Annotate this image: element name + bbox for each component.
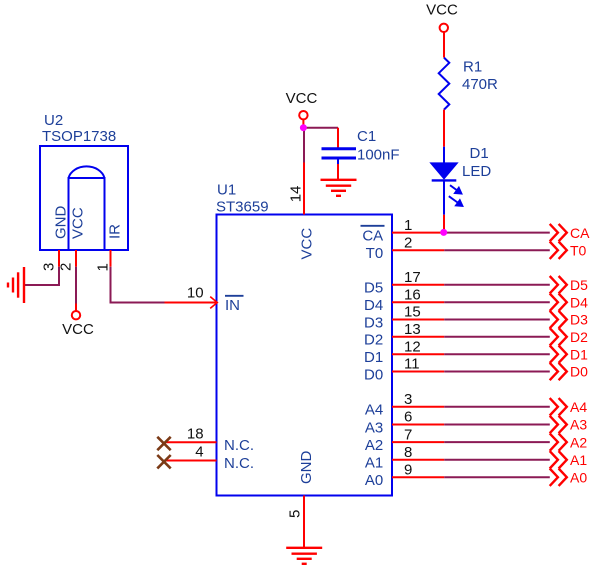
- svg-text:470R: 470R: [462, 76, 498, 93]
- svg-text:GND: GND: [298, 451, 315, 485]
- svg-text:C1: C1: [357, 128, 376, 145]
- svg-text:100nF: 100nF: [357, 147, 400, 164]
- svg-text:D0: D0: [570, 364, 588, 380]
- svg-text:D3: D3: [570, 312, 588, 328]
- svg-text:D2: D2: [364, 332, 383, 349]
- wire D4 net: [444, 301, 550, 303]
- svg-text:D4: D4: [570, 294, 588, 310]
- IR receiver U2 body outline: [40, 146, 128, 250]
- wire D5 net: [444, 284, 550, 286]
- svg-text:VCC: VCC: [299, 228, 316, 260]
- terminal chevron D2: [550, 328, 558, 345]
- svg-text:9: 9: [404, 461, 412, 478]
- svg-text:6: 6: [404, 409, 412, 426]
- svg-text:VCC: VCC: [70, 207, 87, 239]
- svg-text:A1: A1: [365, 455, 383, 472]
- wire U2 pin2 to VCC: [75, 267, 77, 304]
- terminal chevron T0: [550, 242, 558, 259]
- U1 pin 1 (CA) stub: [392, 232, 444, 234]
- svg-text:U2: U2: [44, 112, 63, 129]
- svg-text:D4: D4: [364, 297, 383, 314]
- capacitor C1: [322, 149, 357, 164]
- svg-text:2: 2: [404, 234, 412, 251]
- wire D1 to pin1 net: [443, 215, 445, 232]
- svg-text:4: 4: [195, 444, 203, 461]
- wire U2 pin1 to U1 IN: [111, 267, 165, 303]
- ground symbol left of U2: [8, 267, 24, 303]
- VCC power symbol below U2: [75, 304, 77, 312]
- svg-text:LED: LED: [462, 163, 491, 180]
- terminal chevron A3: [550, 416, 558, 433]
- U2 pin 1 stub: [110, 250, 112, 267]
- wire VCC junction to C1: [303, 127, 338, 129]
- U1 pin 4 stub: [165, 460, 217, 462]
- svg-text:D0: D0: [364, 366, 383, 383]
- U1 pin 12 (D1) stub: [392, 353, 444, 355]
- LED D1: [432, 147, 457, 215]
- svg-text:10: 10: [187, 285, 204, 302]
- wire A2 net: [444, 441, 550, 443]
- svg-text:D5: D5: [364, 280, 383, 297]
- svg-text:D1: D1: [570, 346, 588, 362]
- junction node VCC/C1: [300, 124, 307, 131]
- svg-text:1: 1: [404, 217, 412, 234]
- wire A0 net: [444, 476, 550, 478]
- svg-text:T0: T0: [366, 245, 384, 262]
- svg-text:3: 3: [41, 263, 58, 271]
- svg-text:A0: A0: [365, 472, 383, 489]
- wire D3 net: [444, 319, 550, 321]
- wire D1 net: [444, 353, 550, 355]
- terminal chevron D1: [550, 346, 558, 363]
- svg-text:A0: A0: [570, 469, 587, 485]
- svg-text:D1: D1: [470, 145, 489, 162]
- VCC power symbol above U1: [302, 120, 304, 128]
- svg-text:12: 12: [404, 338, 421, 355]
- svg-text:D2: D2: [570, 329, 588, 345]
- svg-text:17: 17: [404, 269, 421, 286]
- svg-text:A3: A3: [570, 417, 587, 433]
- terminal chevron D4: [550, 294, 558, 311]
- svg-text:5: 5: [287, 510, 304, 518]
- svg-text:VCC: VCC: [286, 90, 318, 107]
- U1 pin 16 (D4) stub: [392, 301, 444, 303]
- U2 pin 3 stub: [58, 250, 60, 267]
- svg-text:N.C.: N.C.: [224, 437, 254, 454]
- U1 pin 5 stub: [303, 496, 305, 548]
- svg-text:IN: IN: [225, 297, 240, 314]
- svg-text:D3: D3: [364, 314, 383, 331]
- terminal chevron A1: [550, 451, 558, 468]
- U1 pin 11 (D0) stub: [392, 371, 444, 373]
- resistor R1: [439, 58, 450, 110]
- terminal chevron D3: [550, 311, 558, 328]
- svg-text:TSOP1738: TSOP1738: [42, 128, 116, 145]
- svg-text:GND: GND: [53, 206, 70, 240]
- U1 pin 10 stub with input arrow: [165, 302, 217, 304]
- U1 pin 14 stub: [303, 163, 305, 215]
- U2 pin 2 stub: [75, 250, 77, 267]
- U1 pin 3 (A4) stub: [392, 406, 444, 408]
- svg-text:8: 8: [404, 444, 412, 461]
- U1 pin 18 stub: [165, 441, 217, 443]
- no-connect X on pin 18: [157, 437, 170, 450]
- wire R1 to D1: [443, 110, 445, 147]
- svg-text:16: 16: [404, 286, 421, 303]
- svg-text:CA: CA: [570, 225, 590, 241]
- terminal chevron A4: [550, 398, 558, 415]
- terminal chevron D5: [550, 276, 558, 293]
- wire CA net: [444, 232, 550, 234]
- no-connect X on pin 4: [157, 455, 170, 468]
- svg-text:7: 7: [404, 426, 412, 443]
- U1 pin 9 (A0) stub: [392, 476, 444, 478]
- U1 pin 15 (D3) stub: [392, 319, 444, 321]
- U1 pin 2 (T0) stub: [392, 249, 444, 251]
- U1 pin 17 (D5) stub: [392, 284, 444, 286]
- wire C1 to ground: [337, 164, 339, 179]
- svg-text:13: 13: [404, 321, 421, 338]
- junction node D1/CA: [440, 229, 447, 236]
- svg-text:11: 11: [404, 356, 420, 373]
- svg-text:A2: A2: [570, 434, 587, 450]
- wire VCC to R1: [443, 32, 445, 57]
- wire A3 net: [444, 424, 550, 426]
- wire T0 net: [444, 249, 550, 251]
- svg-text:ST3659: ST3659: [216, 199, 269, 216]
- ground symbol below C1: [321, 180, 357, 196]
- wire D2 net: [444, 336, 550, 338]
- wire A4 net: [444, 406, 550, 408]
- IC U1 body outline: [217, 215, 393, 496]
- svg-text:VCC: VCC: [426, 2, 458, 19]
- wire U2 pin3 to ground: [24, 267, 59, 285]
- terminal chevron D0: [550, 363, 558, 380]
- terminal chevron A2: [550, 433, 558, 450]
- svg-text:T0: T0: [570, 242, 587, 258]
- terminal chevron A0: [550, 469, 558, 486]
- U1 pin 6 (A3) stub: [392, 424, 444, 426]
- U1 pin 8 (A1) stub: [392, 459, 444, 461]
- terminal chevron CA: [550, 224, 558, 241]
- wire A1 net: [444, 459, 550, 461]
- wire pin14 to VCC junction: [303, 128, 305, 163]
- svg-text:14: 14: [287, 186, 304, 203]
- svg-text:1: 1: [94, 263, 111, 271]
- svg-text:18: 18: [187, 426, 204, 443]
- D1 light emission arrows: [449, 185, 463, 206]
- svg-text:VCC: VCC: [62, 321, 94, 338]
- svg-text:D1: D1: [364, 349, 383, 366]
- svg-text:U1: U1: [217, 182, 236, 199]
- svg-text:A4: A4: [570, 399, 587, 415]
- svg-text:A2: A2: [365, 437, 383, 454]
- svg-text:3: 3: [404, 391, 412, 408]
- svg-text:N.C.: N.C.: [224, 455, 254, 472]
- svg-text:2: 2: [58, 263, 75, 271]
- svg-text:CA: CA: [362, 228, 383, 245]
- svg-text:A3: A3: [365, 419, 383, 436]
- U1 pin 7 (A2) stub: [392, 441, 444, 443]
- svg-text:A1: A1: [570, 452, 587, 468]
- svg-text:D5: D5: [570, 277, 588, 293]
- ground symbol below U1: [286, 548, 322, 564]
- svg-text:R1: R1: [463, 59, 482, 76]
- svg-text:IR: IR: [106, 224, 123, 239]
- CA overline: [361, 225, 385, 227]
- svg-text:15: 15: [404, 304, 421, 321]
- U1 pin 13 (D2) stub: [392, 336, 444, 338]
- svg-text:A4: A4: [365, 402, 383, 419]
- wire D0 net: [444, 371, 550, 373]
